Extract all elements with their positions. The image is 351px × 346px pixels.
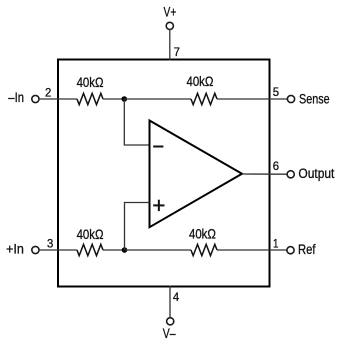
op-amp U1 [150, 121, 243, 228]
svg-text:40kΩ: 40kΩ [187, 74, 214, 89]
svg-text:2: 2 [45, 86, 52, 100]
wire node B to R4 [125, 249, 192, 251]
op-amp non-inverting input marker + [153, 200, 164, 211]
svg-text:40kΩ: 40kΩ [77, 75, 104, 90]
wire op-amp output to Output terminal [242, 173, 287, 175]
node A junction [122, 96, 128, 102]
wire node A to op-amp inverting input [124, 99, 149, 145]
reference terminal Ref [287, 247, 294, 254]
svg-text:7: 7 [174, 45, 181, 59]
wire R4 to Ref terminal [217, 249, 287, 251]
wire V+ terminal to package pin 7 [169, 29, 171, 60]
wire +In terminal to R3 [39, 249, 77, 251]
IC package outline [58, 60, 270, 287]
svg-text:6: 6 [273, 159, 280, 173]
svg-text:1: 1 [273, 236, 279, 250]
svg-text:4: 4 [173, 290, 180, 304]
wire node A to R2 [124, 98, 191, 100]
svg-text:5: 5 [273, 85, 280, 99]
wire R1 to node A [103, 98, 124, 100]
wire −In terminal to R1 [39, 98, 77, 100]
wire package pin 4 to V− terminal [169, 286, 171, 318]
wire node B to op-amp non-inverting input [125, 203, 150, 251]
feedback terminal Sense [287, 95, 294, 102]
resistor R4 40kΩ [191, 244, 217, 255]
resistor R3 40kΩ [77, 244, 103, 255]
svg-text:+In: +In [6, 241, 24, 256]
svg-text:–In: –In [8, 90, 24, 105]
svg-text:40kΩ: 40kΩ [189, 226, 216, 241]
power terminal V+ [166, 22, 173, 29]
svg-text:Output: Output [298, 166, 334, 181]
input terminal +In [32, 246, 39, 253]
svg-text:Ref: Ref [298, 242, 316, 257]
resistor R2 40kΩ [191, 93, 217, 104]
resistor R1 40kΩ [77, 93, 103, 104]
svg-text:V+: V+ [164, 5, 177, 20]
wire R2 to Sense terminal [217, 98, 288, 100]
svg-text:V–: V– [163, 326, 176, 341]
svg-text:3: 3 [47, 237, 54, 251]
op-amp inverting input marker − [153, 146, 163, 148]
svg-text:Sense: Sense [299, 91, 330, 106]
node B junction [122, 247, 128, 253]
svg-text:40kΩ: 40kΩ [77, 227, 104, 242]
power terminal V− [167, 318, 174, 325]
wire R3 to node B [103, 249, 125, 251]
output terminal Output [287, 171, 294, 178]
input terminal −In [32, 95, 39, 102]
